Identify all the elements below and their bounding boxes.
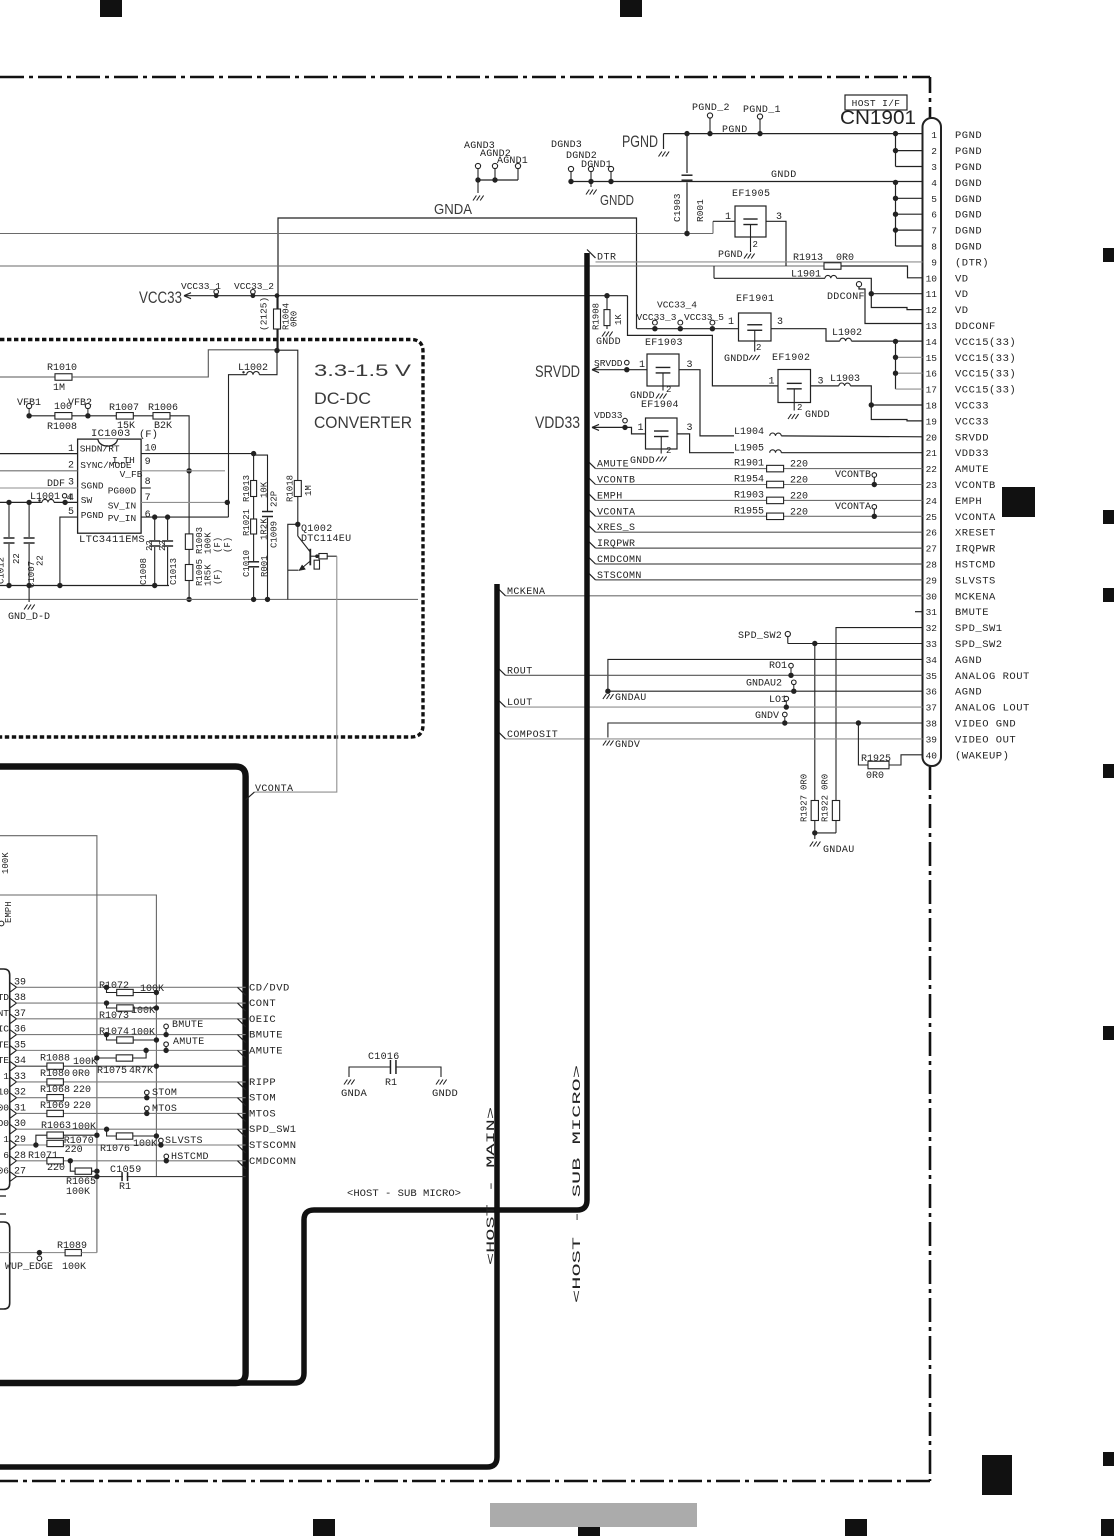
AGND tie wire — [478, 179, 518, 181]
svg-text:1M: 1M — [53, 383, 65, 394]
svg-text:1: 1 — [769, 377, 775, 388]
svg-text:PGND_2: PGND_2 — [692, 103, 730, 114]
EF1904 pin2 ground — [660, 449, 662, 454]
svg-text:GNDD: GNDD — [600, 192, 634, 209]
svg-text:PG00D: PG00D — [108, 485, 137, 496]
svg-text:DC-DC: DC-DC — [314, 390, 371, 408]
svg-text:CN1901: CN1901 — [840, 108, 916, 129]
svg-text:IC1003: IC1003 — [91, 428, 131, 440]
svg-text:6: 6 — [931, 210, 937, 221]
bus entry label AMUTE — [238, 1050, 246, 1058]
bus entry label SPD_SW1 — [238, 1129, 246, 1137]
R1010 wire jog to L1002 node — [72, 350, 277, 377]
svg-text:VCC33: VCC33 — [139, 288, 182, 307]
svg-text:VD: VD — [955, 289, 969, 301]
svg-text:SPD_SW2: SPD_SW2 — [738, 631, 782, 642]
svg-text:10: 10 — [145, 444, 157, 455]
board outline border dash-dot right upper — [929, 77, 932, 119]
svg-text:0R0: 0R0 — [290, 311, 300, 327]
svg-text:L1905: L1905 — [734, 444, 764, 455]
svg-text:12: 12 — [926, 305, 938, 316]
svg-text:4: 4 — [931, 178, 937, 189]
svg-text:SPD_SW2: SPD_SW2 — [955, 639, 1003, 651]
ground row B — [0, 598, 418, 600]
bus block A thick wire — [0, 767, 246, 1384]
IC1003 pin10 wire — [141, 453, 254, 455]
svg-text:100K: 100K — [1, 852, 11, 874]
svg-text:220: 220 — [790, 460, 808, 471]
capacitor C1008 22 — [154, 517, 156, 540]
net VCONTB wire from sub-micro bus — [587, 476, 596, 484]
left connector body lower — [0, 1222, 10, 1309]
svg-text:SLVSTS: SLVSTS — [955, 575, 996, 587]
svg-text:06: 06 — [0, 1166, 9, 1177]
svg-text:24: 24 — [926, 496, 938, 507]
svg-text:STOM: STOM — [249, 1093, 276, 1105]
svg-text:AMUTE: AMUTE — [249, 1045, 283, 1057]
svg-text:MCKENA: MCKENA — [955, 591, 996, 603]
svg-text:SRVDD: SRVDD — [594, 358, 623, 369]
row wire pin 30 — [17, 1128, 246, 1130]
svg-text:WUP_EDGE: WUP_EDGE — [5, 1262, 53, 1273]
svg-text:(DTR): (DTR) — [955, 257, 989, 269]
svg-text:DGND: DGND — [955, 194, 982, 206]
IC1003 pin7 SV_IN wire — [141, 501, 228, 503]
svg-text:VD: VD — [955, 305, 969, 317]
svg-text:MTOS: MTOS — [249, 1108, 276, 1120]
VCC33_3/4/5 test point row — [637, 328, 739, 330]
row wire pin 36 — [17, 1034, 246, 1036]
svg-text:CONVERTER: CONVERTER — [314, 414, 412, 432]
svg-text:22P: 22P — [270, 491, 280, 507]
svg-text:GNDA: GNDA — [341, 1088, 368, 1100]
L1901 wire to pins 11 12 — [837, 278, 877, 307]
registration mark bottom 4 — [845, 1519, 867, 1536]
svg-text:ANALOG ROUT: ANALOG ROUT — [955, 671, 1030, 683]
pins 14-17 VCC15 bus — [895, 341, 897, 389]
svg-text:DGND: DGND — [955, 242, 982, 254]
bus entry label BMUTE — [238, 1035, 246, 1043]
svg-text:VDD33: VDD33 — [535, 413, 580, 432]
svg-text:VCONTB: VCONTB — [955, 480, 996, 492]
svg-text:VCC33_5: VCC33_5 — [684, 312, 724, 323]
IC1003 pin8 stub — [141, 487, 151, 489]
svg-text:PV_IN: PV_IN — [108, 513, 137, 524]
svg-text:PGND: PGND — [955, 162, 982, 174]
resistor R1075 4R7K — [143, 1048, 148, 1053]
net VIDEO GND pin38 bracket — [608, 723, 923, 738]
svg-text:DDCONF: DDCONF — [955, 321, 996, 333]
EF1901 pin2 ground — [754, 341, 756, 352]
svg-text:R1013: R1013 — [242, 475, 252, 502]
svg-text:13: 13 — [926, 321, 938, 332]
ground GNDD C1016 right — [436, 1080, 439, 1085]
R1927/R1922 ground join — [814, 821, 816, 833]
svg-text:<HOST - MAIN>: <HOST - MAIN> — [486, 1107, 498, 1265]
svg-text:R1: R1 — [385, 1078, 397, 1089]
ground GNDAU mid — [603, 694, 606, 699]
svg-text:EF1901: EF1901 — [736, 294, 774, 305]
ground GNDA C1016 left — [344, 1080, 347, 1085]
svg-text:220: 220 — [73, 1085, 91, 1096]
svg-text:DDCONF: DDCONF — [827, 292, 865, 303]
svg-text:DTC114EU: DTC114EU — [301, 534, 351, 545]
svg-text:2: 2 — [931, 146, 937, 157]
svg-text:R1922: R1922 — [821, 795, 831, 822]
capacitor C1012 22 — [8, 502, 10, 537]
row wire pin 39 — [17, 986, 246, 988]
svg-text:V_FB: V_FB — [120, 469, 143, 480]
svg-text:VDD33: VDD33 — [594, 410, 623, 421]
EF1902 pin2 ground — [793, 403, 795, 411]
svg-text:VDD33: VDD33 — [955, 448, 989, 460]
svg-text:VCONTA: VCONTA — [955, 512, 996, 524]
svg-text:L1902: L1902 — [832, 328, 862, 339]
net VCONTA wire to Q1002 — [254, 556, 336, 792]
ground GNDD — [590, 182, 592, 188]
IC1003 pin6 PV_IN wire — [141, 516, 228, 518]
capacitor C1010 — [253, 534, 255, 561]
row wire pin 33 — [17, 1081, 246, 1083]
svg-text:R001: R001 — [260, 555, 270, 577]
svg-text:VCC33: VCC33 — [955, 416, 989, 428]
svg-text:2: 2 — [666, 385, 671, 395]
large black registration square — [1002, 487, 1035, 517]
svg-text:ANALOG LOUT: ANALOG LOUT — [955, 703, 1030, 715]
svg-text:(F): (F) — [139, 429, 158, 441]
svg-text:SV_IN: SV_IN — [108, 500, 137, 511]
svg-text:C1010: C1010 — [242, 550, 252, 577]
svg-text:R1010: R1010 — [47, 363, 77, 374]
left connector cut marks — [0, 1195, 6, 1197]
svg-text:34: 34 — [926, 655, 938, 666]
svg-text:DGND: DGND — [955, 226, 982, 238]
resistor R1922 0R0 — [832, 801, 839, 821]
svg-text:2: 2 — [756, 343, 761, 353]
svg-text:17: 17 — [926, 385, 937, 396]
svg-text:R1927: R1927 — [800, 795, 810, 822]
svg-text:SRVDD: SRVDD — [535, 362, 580, 381]
svg-text:R1903: R1903 — [734, 490, 764, 501]
svg-text:EF1904: EF1904 — [641, 400, 679, 411]
svg-text:GNDV: GNDV — [755, 711, 779, 722]
svg-text:4R7K: 4R7K — [129, 1066, 153, 1077]
svg-text:GNDD: GNDD — [630, 456, 655, 467]
svg-text:22: 22 — [926, 464, 938, 475]
svg-text:VCC33: VCC33 — [955, 401, 989, 413]
svg-text:VCC15(33): VCC15(33) — [955, 369, 1016, 381]
bus entry label CMDCOMN — [238, 1161, 246, 1169]
registration mark top-left — [100, 0, 122, 17]
svg-text:R1021: R1021 — [242, 509, 252, 536]
svg-text:18: 18 — [926, 401, 938, 412]
svg-text:2: 2 — [68, 461, 74, 472]
svg-text:R1955: R1955 — [734, 506, 764, 517]
net AGND pins34/36 bracket — [608, 659, 923, 691]
bus entry label OEIC — [238, 1019, 246, 1027]
svg-text:9: 9 — [145, 457, 151, 468]
svg-text:8: 8 — [145, 477, 151, 488]
registration tick right edge d — [1103, 764, 1114, 778]
net DTR from sub-micro bus — [587, 250, 596, 258]
capacitor C1013 22 — [167, 517, 169, 540]
svg-text:PGND: PGND — [81, 510, 104, 521]
svg-text:GNDD: GNDD — [771, 170, 797, 181]
svg-text:R001: R001 — [695, 199, 706, 222]
svg-text:15: 15 — [926, 353, 938, 364]
svg-text:22: 22 — [36, 555, 46, 566]
ground GNDAU lower — [810, 842, 813, 847]
svg-text:5: 5 — [68, 507, 74, 518]
net LOUT wire from main bus — [497, 699, 506, 707]
svg-text:R1954: R1954 — [734, 475, 764, 486]
svg-text:D0: D0 — [0, 1118, 9, 1129]
wire into vertical x97 — [0, 836, 97, 1253]
svg-text:VCC33_4: VCC33_4 — [657, 300, 697, 311]
capacitor C1007 22 — [28, 502, 30, 537]
left connector body upper — [0, 969, 10, 1190]
svg-text:SRVDD: SRVDD — [955, 432, 989, 444]
svg-text:0R0: 0R0 — [821, 774, 831, 790]
svg-text:R1901: R1901 — [734, 459, 764, 470]
bus entry label CD/DVD — [238, 987, 246, 995]
svg-text:DGND: DGND — [955, 210, 982, 222]
gray bar bottom center — [490, 1503, 697, 1527]
svg-text:(2125): (2125) — [259, 297, 270, 331]
net STSCOMN wire from sub-micro bus — [587, 572, 596, 580]
svg-text:R1075: R1075 — [97, 1066, 127, 1077]
svg-text:<HOST - SUB MICRO>: <HOST - SUB MICRO> — [572, 1065, 584, 1303]
svg-text:DGND3: DGND3 — [551, 140, 582, 151]
svg-text:<HOST - SUB MICRO>: <HOST - SUB MICRO> — [347, 1188, 461, 1200]
svg-text:100K: 100K — [204, 532, 214, 554]
svg-text:1: 1 — [3, 1071, 9, 1082]
svg-text:11: 11 — [926, 289, 938, 300]
black rectangle lower right — [982, 1455, 1012, 1495]
net PGND wire — [664, 133, 923, 135]
svg-text:28: 28 — [926, 560, 938, 571]
row wire pin 37 — [17, 1018, 246, 1020]
svg-text:35: 35 — [926, 671, 938, 682]
svg-text:SLVSTS: SLVSTS — [165, 1136, 203, 1147]
svg-text:VCC15(33): VCC15(33) — [955, 353, 1016, 365]
svg-text:GNDD: GNDD — [432, 1088, 458, 1100]
net CMDCOMN wire from sub-micro bus — [587, 556, 596, 564]
IC1003 pin9 wire — [141, 470, 225, 472]
svg-text:RIPP: RIPP — [249, 1077, 276, 1089]
svg-text:EMPH: EMPH — [955, 496, 982, 508]
registration tick right edge c — [1103, 588, 1114, 602]
bus entry label MTOS — [238, 1113, 246, 1121]
svg-text:1K: 1K — [614, 314, 624, 325]
svg-text:220: 220 — [790, 476, 808, 487]
svg-text:29: 29 — [926, 575, 938, 586]
svg-text:VCONTA: VCONTA — [255, 784, 293, 795]
DC-DC block dashed border — [0, 340, 423, 738]
registration mark bottom 1 — [48, 1519, 70, 1536]
svg-text:220: 220 — [73, 1101, 91, 1112]
svg-text:R1913: R1913 — [793, 253, 823, 264]
svg-text:HSTCMD: HSTCMD — [171, 1152, 209, 1163]
R1913 output wire to pin10 — [841, 266, 923, 278]
svg-text:100K: 100K — [66, 1187, 90, 1198]
svg-text:EMPH: EMPH — [4, 901, 14, 923]
svg-text:SPD_SW1: SPD_SW1 — [955, 623, 1003, 635]
resistor R1018 1M — [294, 481, 301, 497]
registration tick right edge a — [1103, 248, 1114, 262]
svg-text:40: 40 — [926, 750, 938, 761]
svg-text:VIDEO OUT: VIDEO OUT — [955, 734, 1016, 746]
svg-text:C1012: C1012 — [0, 557, 7, 584]
svg-text:22: 22 — [158, 540, 168, 551]
bus HOST-SUB-MICRO thick wire — [0, 253, 587, 1383]
EF1903 pin3 wire to L1904 — [679, 370, 734, 436]
svg-text:20: 20 — [926, 432, 938, 443]
svg-text:TE: TE — [0, 1039, 9, 1050]
svg-text:1: 1 — [638, 423, 644, 434]
wire node to Q1002 column — [277, 350, 298, 480]
svg-text:25: 25 — [926, 512, 938, 523]
EF1902 pin3 wire via L1903 — [811, 385, 839, 387]
VCC33 staircase wire to EF1902 — [628, 296, 779, 386]
svg-text:C1008: C1008 — [139, 558, 149, 585]
junction pins1-3 bus — [895, 134, 897, 167]
bus entry label CONT — [238, 1003, 246, 1011]
svg-text:2: 2 — [666, 446, 671, 456]
net SPD_SW2 wire pin33 — [787, 637, 789, 644]
svg-text:2: 2 — [797, 403, 802, 413]
svg-text:BMUTE: BMUTE — [955, 607, 989, 619]
wire row y233.5 — [0, 233, 713, 235]
svg-text:STOM: STOM — [152, 1088, 177, 1099]
IC1003 pin5 PGND drop — [60, 517, 78, 585]
net MCKENA wire from main bus — [497, 588, 506, 596]
resistor R1065 100K — [70, 1161, 75, 1171]
svg-text:STSCOMN: STSCOMN — [249, 1140, 297, 1152]
svg-text:(F): (F) — [213, 537, 223, 553]
svg-text:C1903: C1903 — [672, 193, 683, 222]
net IRQPWR wire from sub-micro bus — [587, 540, 596, 548]
VDD33 arrow and test point — [592, 426, 625, 428]
Q1002 base resistor — [319, 554, 327, 559]
svg-text:220: 220 — [790, 507, 808, 518]
registration tick right edge f — [1103, 1452, 1114, 1466]
R1006 output wire down to V_FB node — [170, 416, 189, 534]
svg-text:MTOS: MTOS — [152, 1104, 177, 1115]
resistor R1908 1K — [606, 296, 608, 310]
svg-text:0R0: 0R0 — [72, 1069, 90, 1080]
row wire pin 28 — [17, 1160, 246, 1162]
svg-text:GNDAU: GNDAU — [615, 693, 647, 704]
svg-text:RO1: RO1 — [769, 661, 787, 672]
svg-text:L1901: L1901 — [791, 270, 821, 281]
EF1905 pin3 wire — [766, 221, 786, 266]
row wire pin 35 — [17, 1049, 246, 1051]
svg-text:1: 1 — [3, 1134, 9, 1145]
svg-text:22: 22 — [145, 540, 155, 551]
svg-text:PGND: PGND — [622, 132, 658, 151]
svg-text:3.3-1.5 V: 3.3-1.5 V — [314, 362, 411, 380]
row wire pin 38 — [17, 1002, 246, 1004]
svg-text:(WAKEUP): (WAKEUP) — [955, 750, 1009, 762]
row wire pin 29 — [17, 1144, 246, 1146]
svg-text:6: 6 — [145, 510, 151, 521]
svg-text:38: 38 — [926, 719, 938, 730]
svg-text:(F): (F) — [213, 569, 223, 585]
svg-text:SW: SW — [81, 495, 93, 506]
svg-text:VD: VD — [955, 273, 969, 285]
svg-text:30: 30 — [926, 591, 938, 602]
svg-text:R1018: R1018 — [286, 475, 296, 502]
svg-text:3: 3 — [931, 162, 937, 173]
row wire pin 31 — [17, 1112, 246, 1114]
bus entry label STOM — [238, 1098, 246, 1106]
svg-text:VCONTA: VCONTA — [835, 502, 871, 513]
svg-text:(F): (F) — [223, 537, 233, 553]
svg-text:R1: R1 — [119, 1182, 131, 1193]
svg-text:37: 37 — [926, 703, 937, 714]
svg-text:VCC15(33): VCC15(33) — [955, 385, 1016, 397]
ground GNDA top — [473, 196, 476, 201]
test point DDCONF — [856, 282, 861, 287]
svg-text:C1013: C1013 — [169, 558, 179, 585]
svg-text:GNDD: GNDD — [596, 337, 621, 348]
svg-text:AGND: AGND — [955, 655, 982, 667]
svg-text:CMDCOMN: CMDCOMN — [249, 1156, 297, 1168]
svg-text:32: 32 — [926, 623, 938, 634]
resistor R1927 0R0 — [814, 644, 816, 801]
registration mark top-center — [620, 0, 642, 17]
svg-text:100K: 100K — [131, 1028, 155, 1039]
EF1904 pin3 wire to L1905 — [677, 434, 734, 453]
IC1003 pin1 wire — [0, 453, 78, 455]
capacitor C1903 / R001 vertical — [686, 134, 688, 173]
svg-text:CONT: CONT — [249, 998, 276, 1010]
ground row A — [0, 585, 169, 587]
svg-text:HSTCMD: HSTCMD — [955, 560, 996, 572]
svg-text:IC: IC — [0, 1024, 9, 1035]
svg-text:AGND1: AGND1 — [497, 156, 528, 167]
wire into vertical x156 — [0, 895, 156, 1177]
svg-text:PGND: PGND — [955, 130, 982, 142]
resistor chain R1013 10K — [253, 454, 255, 481]
svg-text:VIDEO GND: VIDEO GND — [955, 719, 1016, 731]
net GNDA wire — [278, 218, 637, 351]
svg-text:XRESET: XRESET — [955, 528, 996, 540]
svg-text:CD/DVD: CD/DVD — [249, 982, 290, 994]
svg-text:SGND: SGND — [81, 481, 104, 492]
svg-text:220: 220 — [65, 1145, 83, 1156]
svg-text:GNDA: GNDA — [434, 201, 472, 218]
svg-text:36: 36 — [926, 687, 938, 698]
svg-text:L1904: L1904 — [734, 427, 764, 438]
connector CN1901 body — [923, 118, 942, 766]
svg-text:IRQPWR: IRQPWR — [955, 544, 996, 556]
svg-text:1: 1 — [639, 360, 645, 371]
svg-text:100K: 100K — [62, 1262, 86, 1273]
svg-text:3: 3 — [777, 317, 783, 328]
svg-text:PGND: PGND — [955, 146, 982, 158]
svg-text:LTC3411EMS: LTC3411EMS — [79, 534, 145, 546]
board outline border dash-dot bottom — [0, 1480, 930, 1483]
registration mark bottom 2 — [313, 1519, 335, 1536]
svg-text:00: 00 — [0, 1102, 9, 1113]
registration tick right edge b — [1103, 510, 1114, 524]
svg-text:10: 10 — [926, 273, 938, 284]
svg-text:22: 22 — [12, 553, 22, 564]
svg-text:VCONTB: VCONTB — [835, 470, 871, 481]
resistor R1003 100K — [185, 534, 193, 550]
